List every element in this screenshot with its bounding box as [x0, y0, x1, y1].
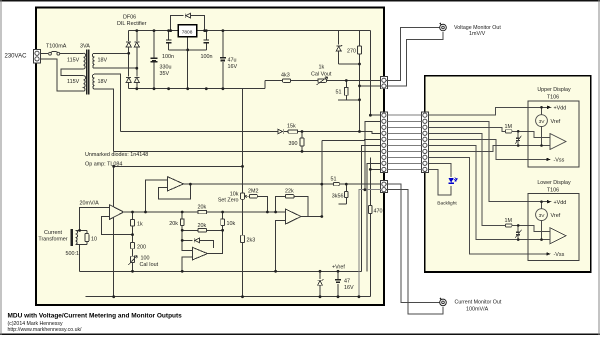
svg-text:20k: 20k	[198, 223, 207, 229]
svg-text:3V: 3V	[539, 119, 546, 125]
capacitor C1 330u plates	[151, 58, 158, 62]
trimmer VR1 1k Cal Vout	[318, 79, 327, 82]
op-amp lower display	[550, 228, 566, 244]
resistor 1M lower	[506, 224, 512, 227]
wire 270 node down to connector pin2 and onward	[359, 64, 361, 132]
phono jack voltage monitor out	[440, 23, 447, 31]
wire lower 1M line from pin4	[429, 133, 506, 225]
arrow -Vss lower	[546, 252, 550, 255]
wire mid node	[182, 229, 222, 231]
op-amp upper display	[550, 134, 566, 150]
wire secondary S2 bottom lead down to metering line 2	[94, 89, 113, 151]
diode D1 bridge top-left	[126, 42, 131, 47]
wire current monitor signal	[386, 184, 443, 314]
wire op3 output feed up to header pin5	[322, 139, 381, 140]
wire buffer +in down to signal bus	[146, 180, 168, 212]
svg-text:Current: Current	[44, 230, 62, 236]
svg-text:51: 51	[336, 90, 342, 96]
ribbon wires between headers	[388, 115, 422, 169]
wire signal bus op4 out to op3 -in	[124, 211, 286, 213]
wire secondary S1 top to bridge column 1	[94, 52, 128, 54]
display wiring	[429, 106, 567, 256]
svg-text:3V: 3V	[539, 213, 546, 219]
svg-text:T100mA: T100mA	[46, 44, 67, 50]
resistor R2 4k3	[283, 79, 291, 82]
LED backlight blue	[448, 177, 457, 183]
resistor 20k mid	[198, 229, 207, 232]
main schematic box	[36, 8, 384, 305]
svg-text:2k3: 2k3	[247, 237, 256, 243]
wire AC metering line 2 to header pin7	[114, 150, 381, 152]
display box	[425, 76, 591, 272]
resistor R12 51 output	[334, 182, 340, 185]
resistor R9 10 burden	[86, 230, 88, 244]
wire lower +Vdd from pin2	[429, 121, 548, 201]
arrow +Vdd upper	[547, 106, 551, 109]
svg-text:7808: 7808	[182, 30, 193, 36]
wire +V top rail	[129, 30, 371, 32]
svg-text:Lower Display: Lower Display	[537, 180, 571, 186]
wire 1M to amp -in lower	[512, 225, 550, 231]
capacitor C4 47u lead	[222, 31, 224, 89]
wire +Vref rail	[80, 270, 362, 272]
trimmer cap upper	[517, 131, 519, 145]
resistor R10 1k gain	[132, 212, 134, 242]
svg-text:51: 51	[331, 176, 337, 182]
svg-text:115V: 115V	[67, 79, 80, 85]
wire secondary S1 bottom to bridge column 2	[94, 67, 137, 69]
diode D3 bridge bottom-left	[126, 77, 131, 82]
svg-text:Vref: Vref	[551, 213, 561, 219]
wire ground link	[114, 165, 243, 167]
svg-text:DIL Rectifier: DIL Rectifier	[117, 21, 147, 27]
svg-text:Vref: Vref	[551, 119, 561, 125]
svg-text:1k: 1k	[319, 65, 325, 71]
header strip P2 display 10-pin	[421, 112, 428, 173]
wire 15k to header pin4	[298, 132, 381, 134]
resistor R11 200	[131, 242, 135, 248]
svg-text:16V: 16V	[344, 285, 354, 291]
svg-text:10: 10	[91, 236, 97, 242]
svg-text:22k: 22k	[285, 188, 294, 194]
wire 0V bottom rail of PSU	[129, 88, 265, 90]
capacitor C1 330u lead	[153, 31, 155, 89]
wire buffer feedback	[158, 184, 190, 199]
wire lower +in from pin6	[429, 145, 551, 239]
capacitor C3 100n right lead	[205, 31, 207, 50]
wire 230VAC neutral to primary bottom	[41, 59, 84, 91]
Vref source upper leads	[541, 107, 543, 145]
wire 2M2 to op3 inverting node	[257, 196, 267, 212]
op-amp U1c rectifier	[192, 247, 207, 260]
svg-text:Set Zero: Set Zero	[218, 197, 239, 203]
wire 230VAC live to fuse	[41, 52, 48, 54]
svg-text:3k56: 3k56	[332, 193, 344, 199]
transformer T1 secondary windings	[92, 53, 94, 68]
wire current monitor ground return gray	[359, 190, 382, 297]
capacitor C2 100n plates	[166, 40, 172, 43]
svg-text:500:1: 500:1	[66, 251, 80, 257]
svg-text:(c)2014 Mark Hennessy: (c)2014 Mark Hennessy	[8, 321, 63, 327]
display inner box upper T106	[528, 101, 579, 167]
wire 100n ground link	[169, 49, 207, 51]
wire CT top lead	[76, 229, 87, 231]
resistor R5 390	[301, 132, 303, 152]
resistor network 20k top	[198, 210, 207, 213]
resistor R8 22k feedback	[276, 196, 309, 216]
trimmer cap lower	[517, 225, 519, 239]
phono jack current monitor out	[440, 298, 447, 306]
svg-text:100n: 100n	[201, 54, 213, 60]
svg-text:330u: 330u	[160, 65, 172, 71]
wire op5 output up to 10k	[208, 230, 223, 253]
arrow +Vdd lower	[547, 200, 551, 203]
wire header pin10 stub	[370, 168, 380, 170]
svg-text:2M2: 2M2	[248, 188, 259, 194]
wire upper 1M line from pin3	[429, 127, 506, 131]
connector J2 voltage monitor 2-pin	[380, 77, 387, 89]
op-amp U1b buffer	[168, 177, 184, 191]
svg-text:20k: 20k	[198, 204, 207, 210]
svg-text:+Vref: +Vref	[332, 264, 345, 270]
svg-text:15k: 15k	[287, 124, 296, 130]
diode D4 bridge bottom-right	[134, 77, 139, 82]
wire secondary S2 top lead down to metering line	[94, 74, 120, 131]
current transformer T2 winding	[76, 230, 78, 244]
svg-text:1M: 1M	[505, 218, 513, 224]
wire voltage monitor signal	[386, 28, 443, 87]
Vref source circle lower	[536, 209, 548, 221]
svg-text:230VAC: 230VAC	[5, 54, 28, 60]
resistor R7 2M2	[249, 195, 257, 198]
svg-text:Cal Vout: Cal Vout	[311, 72, 332, 78]
svg-text:18V: 18V	[98, 58, 108, 64]
capacitor C4 47u plates	[220, 57, 226, 59]
wire upper -Vss from pin5	[429, 139, 547, 159]
svg-text:100: 100	[141, 255, 150, 261]
resistor 10k right vertical	[222, 212, 224, 230]
arrow -Vss upper	[546, 158, 550, 161]
transformer T1 core	[87, 50, 89, 95]
svg-text:1mV/V: 1mV/V	[469, 31, 486, 37]
wire Cal Vout input from 0V rail corner	[265, 81, 283, 89]
wire current monitor ground	[386, 190, 443, 314]
capacitor C5 47u Vref	[337, 271, 339, 296]
svg-text:-Vss: -Vss	[554, 158, 565, 164]
svg-text:Current Monitor Out: Current Monitor Out	[455, 300, 502, 306]
wire set-zero chain vertical	[242, 89, 244, 297]
fuse F1 T100mA	[49, 51, 60, 55]
zener diode D6 at rail right	[338, 31, 340, 64]
svg-text:Cal Iout: Cal Iout	[140, 262, 159, 268]
zener diode D9 Vref	[319, 271, 321, 296]
svg-text:T106: T106	[547, 95, 559, 101]
wire zener to 270 junction	[339, 63, 360, 65]
connector J3 current monitor 2-pin	[380, 181, 387, 193]
resistor R4 15k	[288, 130, 298, 133]
wire upper +Vdd from pin1	[429, 107, 548, 115]
wire op3 output to buffer line	[301, 140, 322, 216]
svg-text:270: 270	[347, 48, 356, 54]
svg-text:20mV/A: 20mV/A	[80, 200, 100, 206]
wire backlight loop pin9 pin10	[429, 163, 452, 195]
wire upper +in line from pin7	[429, 146, 551, 152]
connector J1 230VAC	[34, 49, 41, 62]
svg-text:Unmarked diodes: 1n4148: Unmarked diodes: 1n4148	[85, 152, 148, 158]
wire trimmer to Vout connector pin1	[326, 80, 380, 82]
wire ground bus left	[113, 166, 115, 296]
svg-text:470: 470	[374, 208, 383, 214]
wire lower -Vss from pin8	[429, 157, 547, 254]
display inner box lower T106	[528, 194, 579, 261]
wire fuse to transformer primary	[60, 52, 84, 54]
capacitor C3 100n plates	[204, 40, 210, 43]
svg-text:Op amp: TL084: Op amp: TL084	[85, 161, 122, 167]
svg-text:Transformer: Transformer	[38, 236, 67, 242]
svg-text:35V: 35V	[160, 71, 170, 77]
resistor R14 470	[369, 157, 371, 296]
wire +8V rail down to pin1 of main header	[370, 31, 380, 116]
wire 1M to amp -in	[512, 131, 550, 137]
op-amp U1d summing	[285, 209, 301, 224]
svg-text:http://www.markhennessy.co.uk/: http://www.markhennessy.co.uk/	[8, 327, 83, 333]
wire op4 feedback loop	[101, 217, 132, 235]
resistor 20k left vertical	[181, 212, 183, 230]
resistor R6 2k3	[241, 235, 245, 242]
svg-text:100mV/A: 100mV/A	[466, 306, 489, 312]
svg-text:DF06: DF06	[123, 14, 136, 20]
resistor R3 51 vertical	[345, 81, 347, 100]
svg-text:18V: 18V	[98, 79, 108, 85]
bridge rectifier DF06 column wires	[128, 31, 130, 89]
svg-text:+Vdd: +Vdd	[554, 106, 567, 112]
trimmer VR3 100 Cal Iout	[131, 256, 135, 262]
svg-text:T106: T106	[547, 188, 559, 194]
Vref source lower leads	[541, 202, 543, 240]
svg-text:-Vss: -Vss	[554, 252, 565, 258]
wire primary series link	[61, 69, 84, 76]
svg-text:100n: 100n	[162, 54, 174, 60]
wire header pin9 drop	[367, 163, 380, 271]
diode D5 protection loop over 7808	[171, 16, 205, 31]
wire op5 -in	[182, 240, 192, 250]
resistor 1M upper	[506, 130, 512, 133]
svg-text:20k: 20k	[169, 221, 178, 227]
wire 3k56 bottom stub	[339, 203, 347, 205]
svg-text:3VA: 3VA	[80, 44, 90, 50]
wire header pin2 drop	[365, 121, 381, 189]
wire op3 +in to Vref rail	[276, 221, 286, 272]
current transformer T2 core	[71, 229, 73, 246]
svg-text:16V: 16V	[228, 64, 238, 70]
diode D8 rectifier feedback	[182, 230, 213, 248]
svg-text:200: 200	[137, 244, 146, 250]
resistor R1 270	[359, 31, 361, 64]
diode D2 bridge top-right	[134, 42, 139, 47]
svg-text:Upper Display: Upper Display	[537, 87, 571, 93]
Vref source circle upper	[536, 115, 548, 127]
wire op4 +in to CT	[80, 207, 110, 230]
wire 7808 ground pin	[187, 37, 189, 89]
wire buffer output line to 51	[184, 183, 334, 185]
resistor R13 3k56	[345, 184, 347, 204]
svg-text:+Vdd: +Vdd	[554, 200, 567, 206]
svg-text:115V: 115V	[67, 58, 80, 64]
wire CT bottom lead to Vref rail	[76, 245, 87, 272]
wire Vref riser to header pin6	[361, 145, 380, 271]
capacitor C2 100n left lead	[168, 31, 170, 50]
svg-text:47: 47	[344, 278, 350, 284]
wire ground rail	[86, 296, 371, 298]
trimmer VR2 10k Set Zero	[241, 193, 245, 199]
svg-text:1M: 1M	[505, 124, 513, 130]
svg-text:Backlight: Backlight	[437, 201, 457, 207]
transformer T1 primary windings	[84, 53, 86, 69]
wire op5 +in to Vref rail	[182, 257, 192, 271]
svg-text:1k: 1k	[137, 221, 143, 227]
header strip P1 main box 10-pin	[380, 112, 387, 173]
svg-text:47u: 47u	[228, 58, 237, 64]
diode D7 on metering line	[121, 131, 289, 133]
op-amp U1a current input	[109, 205, 123, 220]
svg-text:390: 390	[289, 141, 298, 147]
svg-text:MDU with Voltage/Current Meter: MDU with Voltage/Current Metering and Mo…	[8, 313, 183, 320]
regulator U2 7808	[178, 25, 197, 37]
wire 51 bottom stub	[338, 99, 359, 101]
svg-text:10k: 10k	[227, 221, 236, 227]
svg-text:4k3: 4k3	[281, 73, 290, 79]
wire voltage monitor ground	[386, 32, 443, 86]
